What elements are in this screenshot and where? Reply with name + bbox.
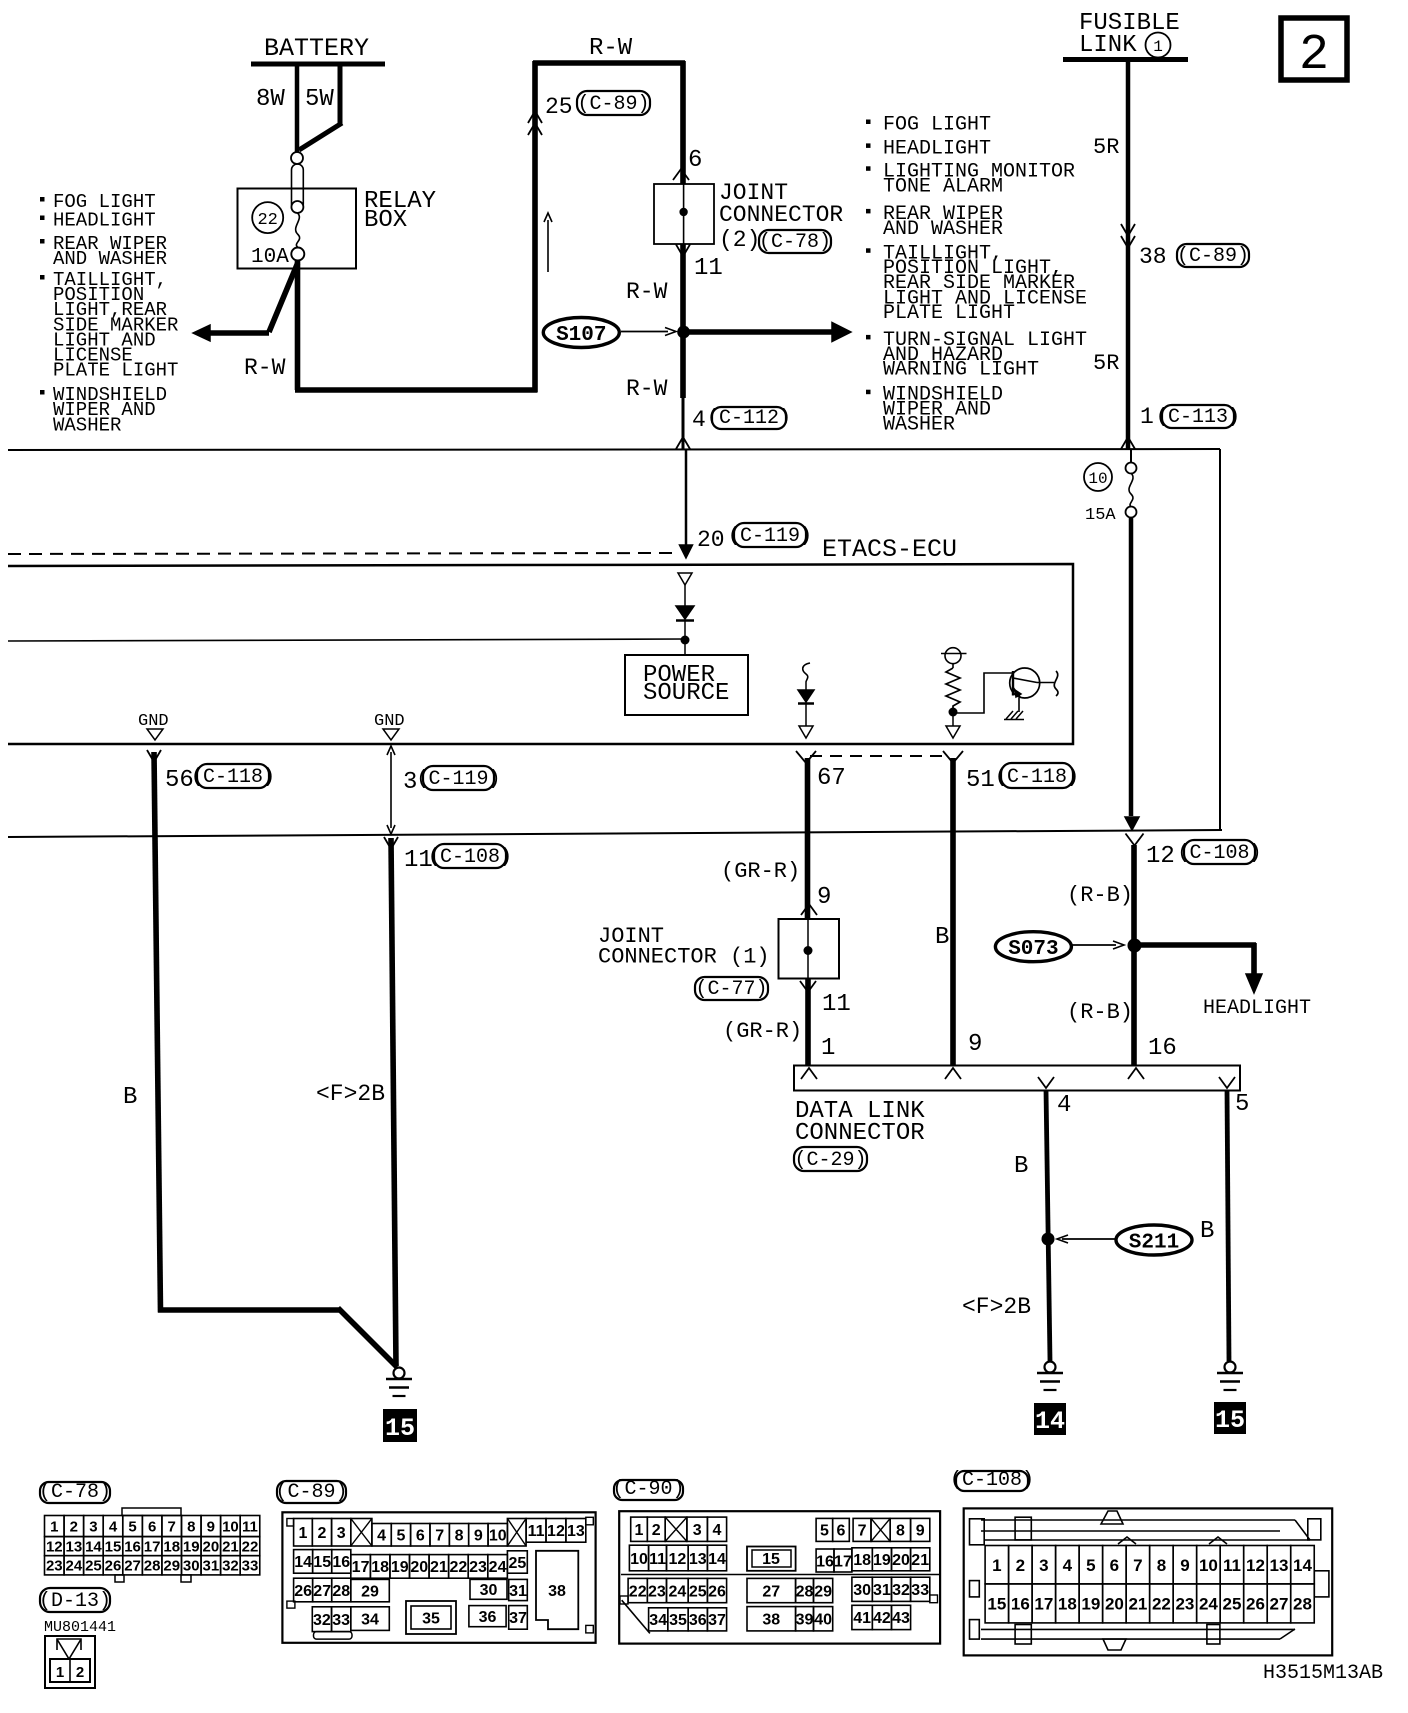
- svg-text:40: 40: [814, 1612, 832, 1629]
- svg-text:6: 6: [416, 1528, 425, 1545]
- svg-text:11: 11: [822, 991, 851, 1018]
- svg-text:26: 26: [1246, 1595, 1265, 1614]
- svg-text:11: 11: [528, 1523, 545, 1540]
- svg-text:7: 7: [435, 1528, 444, 1545]
- svg-text:37: 37: [509, 1610, 527, 1627]
- svg-text:TONE ALARM: TONE ALARM: [883, 176, 1003, 199]
- svg-text:29: 29: [814, 1583, 832, 1600]
- svg-text:AND WASHER: AND WASHER: [883, 218, 1003, 241]
- svg-text:67: 67: [817, 765, 846, 792]
- svg-text:27: 27: [124, 1558, 141, 1575]
- svg-text:6: 6: [148, 1518, 156, 1535]
- svg-text:38: 38: [762, 1612, 780, 1629]
- svg-text:13: 13: [567, 1523, 585, 1540]
- svg-text:S073: S073: [1008, 938, 1058, 961]
- svg-text:(GR-R): (GR-R): [723, 1019, 802, 1044]
- svg-text:2: 2: [317, 1525, 326, 1542]
- svg-text:8: 8: [1157, 1556, 1166, 1575]
- svg-text:22: 22: [242, 1539, 259, 1556]
- svg-text:30: 30: [480, 1582, 498, 1599]
- svg-text:(C-89): (C-89): [1177, 245, 1249, 268]
- svg-text:5: 5: [396, 1528, 405, 1545]
- svg-text:(D-13): (D-13): [39, 1590, 111, 1613]
- svg-text:(C-119): (C-119): [728, 525, 812, 548]
- svg-text:20: 20: [410, 1559, 428, 1576]
- svg-text:25: 25: [85, 1558, 102, 1575]
- svg-text:2: 2: [76, 1664, 84, 1681]
- svg-text:51: 51: [966, 767, 995, 794]
- svg-text:7: 7: [1133, 1556, 1142, 1575]
- svg-text:23: 23: [46, 1558, 63, 1575]
- svg-text:(C-78): (C-78): [759, 231, 831, 254]
- svg-text:(C-119): (C-119): [416, 768, 500, 791]
- svg-text:38: 38: [1139, 244, 1167, 270]
- svg-text:GND: GND: [138, 712, 169, 731]
- svg-text:4: 4: [1057, 1092, 1071, 1119]
- svg-text:20: 20: [892, 1552, 910, 1569]
- svg-text:9: 9: [474, 1528, 483, 1545]
- svg-text:16: 16: [1148, 1035, 1177, 1062]
- svg-text:19: 19: [1081, 1595, 1100, 1614]
- svg-text:9: 9: [817, 884, 831, 911]
- svg-text:(R-B): (R-B): [1067, 1000, 1133, 1025]
- svg-text:34: 34: [649, 1612, 667, 1629]
- svg-text:5R: 5R: [1093, 135, 1119, 160]
- svg-text:R-W: R-W: [626, 376, 668, 402]
- svg-text:4: 4: [1063, 1556, 1073, 1575]
- svg-text:26: 26: [294, 1583, 312, 1600]
- svg-text:ETACS-ECU: ETACS-ECU: [822, 535, 957, 564]
- svg-text:1: 1: [1140, 404, 1154, 430]
- svg-text:10: 10: [1088, 470, 1107, 488]
- svg-text:10: 10: [222, 1518, 239, 1535]
- svg-text:SOURCE: SOURCE: [643, 680, 729, 707]
- svg-text:6: 6: [688, 147, 702, 174]
- svg-text:1: 1: [1153, 38, 1163, 56]
- svg-text:(C-108): (C-108): [1177, 842, 1261, 865]
- svg-text:14: 14: [294, 1554, 312, 1571]
- svg-text:(C-108): (C-108): [950, 1469, 1034, 1492]
- svg-text:39: 39: [796, 1612, 814, 1629]
- svg-text:GND: GND: [374, 712, 405, 731]
- svg-text:PLATE LIGHT: PLATE LIGHT: [883, 302, 1015, 325]
- svg-text:WASHER: WASHER: [883, 414, 955, 437]
- svg-text:4: 4: [692, 407, 706, 433]
- svg-text:41: 41: [853, 1610, 871, 1627]
- svg-text:9: 9: [916, 1523, 925, 1540]
- svg-text:32: 32: [222, 1558, 239, 1575]
- svg-text:4: 4: [713, 1522, 722, 1539]
- svg-text:10A: 10A: [251, 246, 289, 269]
- svg-text:13: 13: [689, 1551, 707, 1568]
- svg-text:14: 14: [708, 1551, 726, 1568]
- svg-text:HEADLIGHT: HEADLIGHT: [53, 210, 156, 232]
- svg-text:21: 21: [430, 1559, 448, 1576]
- svg-text:11: 11: [694, 255, 723, 282]
- svg-text:23: 23: [469, 1559, 487, 1576]
- svg-text:14: 14: [85, 1539, 102, 1556]
- svg-text:20: 20: [697, 527, 725, 553]
- svg-text:1: 1: [298, 1525, 307, 1542]
- svg-text:36: 36: [689, 1612, 707, 1629]
- svg-text:8: 8: [455, 1528, 464, 1545]
- svg-text:21: 21: [222, 1539, 239, 1556]
- svg-text:28: 28: [1293, 1595, 1312, 1614]
- svg-text:PLATE LIGHT: PLATE LIGHT: [53, 360, 178, 382]
- svg-text:BOX: BOX: [364, 207, 407, 234]
- svg-text:2: 2: [1299, 27, 1329, 84]
- svg-text:1: 1: [821, 1035, 835, 1062]
- svg-text:AND WASHER: AND WASHER: [53, 248, 167, 270]
- svg-text:1: 1: [992, 1556, 1001, 1575]
- svg-text:11: 11: [1223, 1556, 1241, 1575]
- svg-text:15: 15: [987, 1595, 1006, 1614]
- svg-text:B: B: [123, 1084, 137, 1111]
- svg-text:7: 7: [168, 1518, 176, 1535]
- svg-text:38: 38: [548, 1583, 566, 1600]
- svg-text:B: B: [935, 924, 949, 951]
- svg-text:17: 17: [352, 1559, 370, 1576]
- svg-text:15A: 15A: [1085, 506, 1116, 525]
- svg-text:56: 56: [165, 767, 194, 794]
- svg-text:28: 28: [144, 1558, 161, 1575]
- svg-text:25: 25: [689, 1583, 707, 1600]
- svg-text:17: 17: [834, 1553, 852, 1570]
- svg-text:33: 33: [332, 1612, 350, 1629]
- svg-text:6: 6: [1110, 1556, 1119, 1575]
- svg-text:FOG LIGHT: FOG LIGHT: [883, 114, 991, 137]
- svg-text:<F>2B: <F>2B: [962, 1294, 1031, 1320]
- svg-text:33: 33: [911, 1582, 929, 1599]
- svg-text:3: 3: [89, 1518, 97, 1535]
- svg-text:24: 24: [489, 1559, 507, 1576]
- svg-text:22: 22: [629, 1583, 647, 1600]
- svg-text:(R-B): (R-B): [1067, 883, 1133, 908]
- svg-text:<F>2B: <F>2B: [316, 1081, 385, 1107]
- svg-text:26: 26: [105, 1558, 122, 1575]
- svg-text:21: 21: [911, 1552, 929, 1569]
- svg-text:(2): (2): [719, 227, 760, 253]
- svg-text:12: 12: [547, 1523, 565, 1540]
- svg-text:HEADLIGHT: HEADLIGHT: [1203, 997, 1311, 1020]
- svg-text:30: 30: [183, 1558, 200, 1575]
- svg-text:5: 5: [820, 1523, 829, 1540]
- svg-text:12: 12: [1246, 1556, 1265, 1575]
- svg-text:2: 2: [1016, 1556, 1025, 1575]
- svg-text:3: 3: [337, 1525, 346, 1542]
- svg-text:5: 5: [1086, 1556, 1095, 1575]
- svg-text:18: 18: [1058, 1595, 1077, 1614]
- svg-text:11: 11: [649, 1551, 666, 1568]
- svg-text:25: 25: [508, 1555, 526, 1572]
- svg-text:(GR-R): (GR-R): [721, 859, 800, 884]
- svg-text:(C-89): (C-89): [275, 1481, 347, 1504]
- svg-text:19: 19: [183, 1539, 200, 1556]
- svg-text:27: 27: [762, 1583, 780, 1600]
- svg-text:19: 19: [391, 1559, 409, 1576]
- svg-text:37: 37: [708, 1612, 726, 1629]
- svg-text:B: B: [1014, 1153, 1028, 1180]
- svg-text:20: 20: [203, 1539, 220, 1556]
- svg-text:29: 29: [163, 1558, 180, 1575]
- svg-text:9: 9: [1180, 1556, 1189, 1575]
- svg-text:15: 15: [385, 1414, 415, 1443]
- svg-text:36: 36: [479, 1609, 497, 1626]
- svg-text:32: 32: [892, 1582, 910, 1599]
- svg-text:22: 22: [450, 1559, 468, 1576]
- svg-text:(C-78): (C-78): [39, 1481, 111, 1504]
- svg-text:18: 18: [853, 1552, 871, 1569]
- svg-text:(C-89): (C-89): [577, 93, 649, 116]
- svg-text:32: 32: [313, 1612, 331, 1629]
- svg-text:BATTERY: BATTERY: [264, 34, 369, 63]
- svg-text:3: 3: [693, 1522, 702, 1539]
- svg-text:28: 28: [332, 1583, 350, 1600]
- svg-text:17: 17: [144, 1539, 161, 1556]
- svg-text:18: 18: [163, 1539, 180, 1556]
- svg-text:5W: 5W: [305, 86, 334, 113]
- svg-text:(C-112): (C-112): [707, 407, 791, 430]
- svg-text:24: 24: [1199, 1595, 1218, 1614]
- svg-text:42: 42: [873, 1610, 891, 1627]
- svg-text:17: 17: [1034, 1595, 1053, 1614]
- svg-text:23: 23: [1175, 1595, 1194, 1614]
- svg-text:14: 14: [1293, 1556, 1312, 1575]
- svg-text:22: 22: [257, 211, 277, 230]
- svg-text:WASHER: WASHER: [53, 414, 121, 436]
- svg-text:7: 7: [858, 1523, 867, 1540]
- svg-text:B: B: [1200, 1218, 1214, 1245]
- svg-text:MU801441: MU801441: [44, 1619, 116, 1636]
- svg-text:S211: S211: [1129, 1232, 1179, 1255]
- svg-text:HEADLIGHT: HEADLIGHT: [883, 137, 991, 160]
- svg-text:(C-29): (C-29): [794, 1149, 866, 1172]
- svg-text:27: 27: [313, 1583, 331, 1600]
- svg-text:34: 34: [361, 1611, 379, 1628]
- svg-text:10: 10: [1199, 1556, 1218, 1575]
- svg-text:23: 23: [648, 1583, 666, 1600]
- svg-text:13: 13: [66, 1539, 83, 1556]
- svg-text:9: 9: [207, 1518, 215, 1535]
- svg-text:CONNECTOR: CONNECTOR: [719, 202, 843, 228]
- svg-text:1: 1: [56, 1664, 64, 1681]
- svg-text:1: 1: [50, 1518, 58, 1535]
- svg-text:LINK: LINK: [1079, 32, 1137, 59]
- svg-text:18: 18: [371, 1559, 389, 1576]
- svg-text:16: 16: [124, 1539, 141, 1556]
- svg-text:28: 28: [796, 1583, 814, 1600]
- svg-text:16: 16: [816, 1553, 834, 1570]
- svg-text:(C-108): (C-108): [428, 846, 512, 869]
- svg-text:4: 4: [109, 1518, 118, 1535]
- svg-text:(C-118): (C-118): [995, 766, 1079, 789]
- svg-text:12: 12: [1146, 843, 1175, 870]
- svg-text:8W: 8W: [256, 86, 285, 113]
- svg-text:20: 20: [1105, 1595, 1124, 1614]
- svg-text:25: 25: [545, 94, 573, 120]
- svg-text:3: 3: [403, 769, 417, 796]
- svg-text:WARNING LIGHT: WARNING LIGHT: [883, 358, 1039, 381]
- svg-text:26: 26: [708, 1583, 726, 1600]
- svg-text:12: 12: [668, 1551, 686, 1568]
- svg-text:30: 30: [853, 1582, 871, 1599]
- svg-text:5: 5: [1235, 1091, 1249, 1118]
- svg-text:(C-118): (C-118): [191, 766, 275, 789]
- svg-text:16: 16: [1011, 1595, 1030, 1614]
- svg-text:6: 6: [837, 1523, 846, 1540]
- svg-text:15: 15: [762, 1551, 780, 1568]
- svg-text:1: 1: [635, 1522, 644, 1539]
- svg-text:19: 19: [873, 1552, 891, 1569]
- svg-text:14: 14: [1035, 1407, 1065, 1436]
- svg-text:29: 29: [361, 1583, 379, 1600]
- svg-text:R-W: R-W: [626, 279, 668, 305]
- svg-text:35: 35: [669, 1612, 687, 1629]
- svg-text:27: 27: [1270, 1595, 1289, 1614]
- svg-text:25: 25: [1222, 1595, 1241, 1614]
- svg-text:(C-77): (C-77): [695, 978, 767, 1001]
- svg-text:22: 22: [1152, 1595, 1171, 1614]
- svg-text:15: 15: [1215, 1406, 1245, 1435]
- svg-text:R-W: R-W: [589, 35, 633, 62]
- svg-text:24: 24: [66, 1558, 83, 1575]
- svg-text:8: 8: [896, 1523, 905, 1540]
- svg-text:S107: S107: [556, 324, 606, 347]
- svg-text:12: 12: [46, 1539, 63, 1556]
- svg-text:10: 10: [630, 1551, 648, 1568]
- svg-text:H3515M13AB: H3515M13AB: [1263, 1662, 1383, 1685]
- svg-text:13: 13: [1270, 1556, 1289, 1575]
- svg-text:CONNECTOR: CONNECTOR: [795, 1120, 925, 1147]
- svg-text:35: 35: [422, 1610, 440, 1627]
- svg-text:2: 2: [652, 1522, 661, 1539]
- svg-text:CONNECTOR (1): CONNECTOR (1): [598, 945, 770, 970]
- svg-text:9: 9: [968, 1031, 982, 1058]
- svg-text:33: 33: [242, 1558, 259, 1575]
- svg-text:21: 21: [1128, 1595, 1147, 1614]
- svg-text:10: 10: [489, 1528, 507, 1545]
- svg-text:31: 31: [203, 1558, 220, 1575]
- svg-text:16: 16: [332, 1554, 350, 1571]
- svg-text:15: 15: [313, 1554, 331, 1571]
- svg-text:(C-90): (C-90): [612, 1478, 684, 1501]
- svg-text:11: 11: [242, 1518, 258, 1535]
- svg-text:24: 24: [668, 1583, 686, 1600]
- svg-text:43: 43: [892, 1610, 910, 1627]
- svg-text:2: 2: [70, 1518, 78, 1535]
- svg-text:R-W: R-W: [244, 355, 286, 381]
- svg-text:(C-113): (C-113): [1156, 406, 1240, 429]
- svg-text:3: 3: [1039, 1556, 1048, 1575]
- svg-text:31: 31: [873, 1582, 891, 1599]
- svg-text:4: 4: [377, 1528, 386, 1545]
- svg-text:8: 8: [187, 1518, 195, 1535]
- svg-text:5: 5: [128, 1518, 136, 1535]
- svg-text:5R: 5R: [1093, 351, 1119, 376]
- svg-text:15: 15: [105, 1539, 122, 1556]
- svg-text:31: 31: [509, 1583, 527, 1600]
